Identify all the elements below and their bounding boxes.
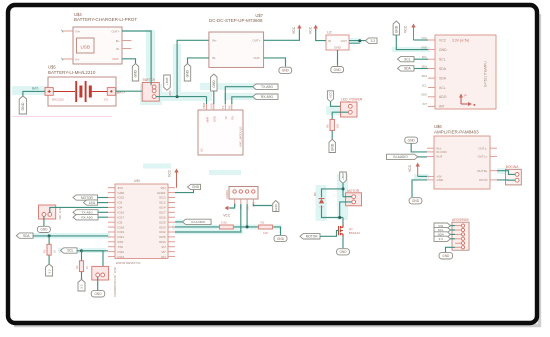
svg-text:GND: GND (21, 102, 25, 110)
svg-text:IN.R: IN.R (437, 155, 443, 159)
wire RX-A9G to A9G RX pin (232, 97, 253, 104)
svg-text:SCL: SCL (439, 58, 446, 62)
switch S1 body (142, 83, 159, 102)
wire SDA tag to MPU (414, 68, 428, 70)
svg-text:INT: INT (439, 105, 444, 109)
net tag MOTOR (ESP32) (73, 195, 98, 200)
button BUT_ULTRASONIDO body (92, 266, 109, 280)
junction motor top (342, 187, 345, 190)
pin IN- of U$4 (62, 58, 73, 60)
net tag TX-A9G (253, 84, 278, 89)
svg-text:IO18: IO18 (118, 225, 125, 229)
wire drain node to Q1 (342, 218, 344, 225)
svg-text:OUT+: OUT+ (111, 29, 119, 33)
ground tag GND (A9G) (211, 74, 217, 91)
svg-text:SDMD1: SDMD1 (225, 189, 229, 199)
module A9G body (198, 110, 243, 155)
BUT_ULTRASONIDO pin 1 (96, 273, 100, 277)
svg-text:VCC: VCC (439, 38, 447, 42)
svg-text:3.3: 3.3 (439, 237, 444, 241)
BUT_IN1 pin 2 (48, 213, 52, 217)
svg-text:VBAT: VBAT (205, 116, 209, 123)
net tag 3.3 (366, 38, 378, 44)
resistor R2 10K (259, 225, 273, 229)
wire TX-A9G tag to IO16 (98, 211, 108, 213)
IC U2 body (326, 35, 349, 50)
battery negative terminal (45, 88, 53, 96)
svg-text:GY-521 ITG/MPU: GY-521 ITG/MPU (484, 61, 488, 87)
svg-text:GND: GND (94, 292, 102, 296)
wire VCC to MPU VCC pin (414, 39, 429, 41)
svg-text:+BAT: +BAT (165, 77, 169, 85)
svg-text:OUT.L-: OUT.L- (478, 146, 487, 150)
IC U$0 amplifier body (434, 136, 490, 189)
pin RX of A9G (231, 104, 233, 110)
wire highlight glows (140, 84, 162, 105)
svg-text:GND: GND (339, 250, 347, 254)
wire Q1 source to ground (342, 237, 344, 249)
svg-text:IN+: IN+ (76, 29, 81, 33)
ground tag GND (U$7 IN-) (184, 64, 190, 82)
power symbol VCC (MPU) (413, 26, 415, 40)
svg-text:BSS123: BSS123 (349, 231, 360, 235)
wire SCL tag to IO22 (77, 250, 108, 252)
button BUT_IN1 body (39, 205, 56, 219)
MOTOR pin 1 (352, 195, 356, 199)
svg-text:XDA: XDA (439, 76, 447, 80)
resistor R6 (330, 120, 334, 131)
wire BAT+ to switch (116, 90, 152, 92)
wire diode bottom to drain node (322, 206, 344, 218)
svg-text:ADO: ADO (421, 93, 427, 97)
junction at U2 OUT (358, 39, 361, 42)
wire motor pin 2 to drain node (340, 202, 352, 218)
wire to flyback diode top (322, 189, 344, 198)
wire amp GND to ground (412, 180, 427, 197)
connector BOCINA body (506, 169, 522, 185)
svg-text:D1: D1 (313, 192, 317, 196)
wire SDMD1 pin1 to VCC (230, 204, 235, 208)
SDMD1 pins (233, 190, 236, 193)
svg-text:VBAT: VBAT (202, 102, 206, 109)
svg-text:VN: VN (161, 245, 165, 249)
svg-text:GND: GND (118, 191, 126, 195)
wire SDA junction to R3 (48, 236, 50, 244)
connector SDMD1 body (229, 187, 258, 200)
ESP32 left pins (108, 187, 115, 189)
pin VBAT of A9G (206, 104, 208, 110)
svg-text:3V3: 3V3 (118, 186, 124, 190)
svg-text:RX0: RX0 (118, 240, 124, 244)
ground tag GND (U$7 OUT-) (279, 67, 292, 73)
svg-text:R6: R6 (326, 124, 330, 128)
svg-text:LED_POWER: LED_POWER (341, 97, 363, 101)
junction SCL (80, 249, 83, 252)
power symbol VCC (amp) (417, 165, 419, 176)
wire SCL to BUT_ULTRASONIDO (82, 251, 104, 273)
svg-text:IO4: IO4 (118, 206, 123, 210)
svg-text:IN-AUDIO: IN-AUDIO (393, 155, 408, 159)
switch pin 2 (152, 89, 156, 93)
net tag +BAT (motor) (340, 172, 347, 183)
svg-text:USB: USB (80, 44, 89, 49)
svg-text:GND: GND (212, 80, 216, 88)
svg-text:SCL: SCL (404, 57, 411, 61)
wire amp OUT.R+ to BOCINA pin 1 (497, 171, 515, 175)
svg-text:MOTOR: MOTOR (81, 196, 94, 200)
connector APDS9960 body (452, 222, 469, 250)
svg-text:IO23: IO23 (118, 255, 125, 259)
svg-text:BUT_ULTRASONIDO: BUT_ULTRASONIDO (113, 268, 117, 298)
wire 5.6K to R2 (234, 226, 258, 228)
svg-text:BATTERY-CHARGER-LI-PROT: BATTERY-CHARGER-LI-PROT (74, 17, 137, 22)
net tag SCL (ESP32) (61, 248, 78, 253)
wire ESP32 GND1 to ground tag (175, 190, 194, 193)
IC U$7 body (209, 32, 264, 67)
transistor Q1 BSS123 (342, 225, 344, 228)
wire U$7 OUT+ to VCC (264, 30, 300, 40)
USB connector symbol inside U$4 (77, 38, 95, 53)
svg-text:ESP32 DEVKITV1: ESP32 DEVKITV1 (116, 261, 141, 265)
svg-text:RX-A9G: RX-A9G (261, 95, 274, 99)
ground tag GND (MPU) (393, 21, 399, 35)
BOCINA pin 2 (515, 178, 519, 182)
resistor R? 5.6K (220, 225, 234, 229)
net tag 3.3 (R4) (78, 279, 85, 291)
svg-text:GND: GND (40, 228, 48, 232)
svg-text:IO15: IO15 (118, 196, 125, 200)
wire U$7 OUT- to ground (264, 58, 286, 67)
BUT_IN1 pin 1 (42, 213, 46, 217)
BOCINA pin 1 (515, 173, 519, 177)
pin B+ of U$4 (122, 40, 132, 42)
svg-text:GND: GND (334, 68, 342, 72)
svg-text:IO16: IO16 (118, 211, 125, 215)
wire BUT_IN1 to IO4 (50, 207, 108, 212)
net tag TX-A9G (ESP32) (73, 210, 98, 215)
svg-text:OUT-: OUT- (112, 57, 119, 61)
svg-text:IO21: IO21 (118, 235, 125, 239)
svg-text:A9G_MODULE: A9G_MODULE (239, 126, 243, 147)
wire IN-AUDIO to amp IN.R (418, 156, 427, 158)
svg-text:1K: 1K (85, 266, 89, 269)
pin IN+ of U$4 (62, 30, 73, 32)
svg-text:IN-: IN- (76, 57, 80, 61)
net tag +BAT (164, 75, 171, 90)
wire R2 to ground (273, 227, 280, 235)
wire IO33 to resistor (175, 226, 219, 228)
svg-text:GND: GND (186, 69, 190, 77)
net tag SCL (MPU) (398, 56, 415, 61)
svg-text:XDA: XDA (421, 74, 427, 78)
wire +BAT rail to A9G VBAT pin (206, 97, 208, 104)
wire switch to +BAT rail (156, 96, 207, 98)
svg-text:R4: R4 (75, 265, 79, 269)
svg-text:SWITCH: SWITCH (142, 78, 155, 82)
net tag 3.3 (R3) (46, 264, 53, 276)
svg-text:IO33: IO33 (159, 225, 166, 229)
svg-text:GND: GND (213, 116, 217, 122)
pin GND of A9G (213, 104, 215, 110)
svg-text:VCC: VCC (408, 164, 412, 172)
svg-text:OUT: OUT (341, 39, 348, 43)
svg-text:SDA: SDA (23, 234, 30, 238)
svg-text:IN+: IN+ (212, 39, 217, 43)
IC U$4 battery charger body (73, 27, 122, 64)
svg-text:BATTERY-LI-MH/L2210: BATTERY-LI-MH/L2210 (48, 70, 96, 75)
connector LED_POWER body (341, 102, 358, 117)
svg-text:330: 330 (336, 124, 340, 129)
wire GND tag to MPU GND pin (396, 35, 428, 50)
svg-text:5.6K: 5.6K (221, 220, 227, 224)
svg-text:EN: EN (161, 255, 165, 259)
svg-text:IO12: IO12 (159, 201, 166, 205)
pin B- of U$4 (122, 48, 132, 50)
svg-text:GND: GND (442, 254, 450, 258)
wire amp OUT.R to BOCINA pin 2 (497, 179, 515, 181)
svg-text:SCL: SCL (422, 55, 428, 59)
svg-text:XCL: XCL (439, 86, 446, 90)
svg-text:VCC: VCC (329, 91, 333, 98)
svg-text:APDS9960: APDS9960 (452, 218, 469, 222)
pin TX of A9G (224, 104, 226, 110)
svg-text:IO5: IO5 (118, 220, 123, 224)
wire SDMD1 pin4 to ground (253, 204, 272, 206)
resistor R3 (47, 244, 51, 255)
svg-text:IO17: IO17 (118, 215, 125, 219)
net tag RX-A9G (ESP32) (73, 215, 98, 220)
wire highlight pink artifact (12, 115, 112, 117)
wire SCL junction to R4 (81, 251, 83, 261)
switch pin 3 (152, 95, 156, 99)
svg-text:GND: GND (408, 139, 416, 143)
wire LIN1 tag to IO2 (98, 202, 109, 204)
power symbol VCC (SDMD1) (227, 207, 230, 209)
net tag IN-AUDIO (ESP32) (183, 219, 212, 224)
GY-521 axis symbol (460, 97, 462, 105)
svg-text:VIN: VIN (160, 186, 165, 190)
svg-text:BOCINA: BOCINA (506, 165, 519, 169)
wire BUT_IN1 to ground (43, 216, 45, 226)
svg-text:TX-A9G: TX-A9G (82, 211, 94, 215)
wire BUT_ULTRASONIDO to ground (97, 277, 99, 291)
svg-text:GND: GND (412, 199, 420, 203)
svg-text:GND: GND (274, 204, 278, 210)
svg-text:TX: TX (224, 116, 228, 120)
wire charger OUT+ to switch (122, 31, 151, 85)
wire TX-A9G to A9G TX pin (225, 87, 252, 104)
wire R3 to 3.3 tag (48, 255, 50, 264)
ground tag GND (SDMD1) (273, 201, 279, 212)
svg-text:SCL: SCL (67, 249, 73, 253)
svg-text:TX0: TX0 (118, 245, 124, 249)
svg-text:R3: R3 (42, 249, 46, 253)
svg-text:INT: INT (423, 102, 428, 106)
net tag SDA (MPU) (398, 66, 415, 71)
wire APDS9960 GND pin to ground (446, 247, 456, 252)
wire R4 to 3.3 tag (81, 272, 83, 280)
junction SDA (48, 234, 51, 237)
GY-521 pins VCC GND SCL SDA XDA XCL ADO INT (428, 39, 435, 41)
ground tag GND (ESP32 GND1) (188, 184, 201, 189)
svg-text:OUT.R+: OUT.R+ (477, 169, 488, 173)
wire SCL tag to MPU (414, 58, 428, 60)
resistor R4 (79, 261, 83, 272)
ground tag GND (U$4 OUT-) (132, 64, 138, 82)
wire RX-A9G tag to IO17 (98, 216, 108, 218)
battery U$5 body (48, 77, 116, 106)
svg-text:GND: GND (421, 45, 427, 49)
svg-text:TX-A9G: TX-A9G (261, 85, 273, 89)
ground tag GND (amp in) (405, 137, 418, 143)
svg-text:OUT.R: OUT.R (479, 178, 488, 182)
ground tag GND (battery) (19, 96, 26, 114)
svg-text:OUT.L+: OUT.L+ (478, 155, 488, 159)
svg-text:IO27: IO27 (159, 211, 166, 215)
wire SDMD1 pin2 to IO19 (175, 204, 241, 232)
wire SDA tag to IO21 (33, 235, 108, 237)
svg-text:RX: RX (228, 105, 232, 109)
svg-text:B-: B- (117, 47, 120, 51)
junction audio net (246, 225, 249, 228)
svg-text:IO34: IO34 (159, 240, 166, 244)
wire +BAT rail to DC-DC IN+ (177, 40, 209, 96)
wire U$4 OUT- to ground (122, 59, 136, 64)
svg-text:3.3V (or 5v): 3.3V (or 5v) (452, 38, 469, 42)
svg-text:BAT-: BAT- (32, 86, 39, 90)
svg-text:3.3: 3.3 (47, 269, 51, 274)
svg-text:VCC: VCC (168, 169, 172, 177)
svg-text:GND: GND (209, 103, 213, 109)
ground tag GND (BUT_ULTRASONIDO) (91, 291, 105, 297)
power symbol VCC (ESP32 VIN) (176, 171, 178, 187)
IC ESP32 body (115, 184, 168, 259)
svg-text:IN-: IN- (212, 56, 216, 60)
svg-text:R2: R2 (261, 220, 265, 224)
ground tag GND (BUT_IN1) (37, 226, 50, 232)
wire U$7 IN- to ground (188, 58, 209, 64)
ground tag GND (LED) (329, 139, 335, 152)
svg-text:IO14: IO14 (159, 206, 166, 210)
svg-text:IO2: IO2 (118, 201, 123, 205)
APDS9960 net tags VIN SCL SDA 3.3 (434, 223, 451, 228)
svg-text:AMPLIFIER-PAM8403: AMPLIFIER-PAM8403 (434, 129, 479, 134)
svg-text:GND: GND (395, 25, 399, 33)
svg-text:IN: IN (328, 39, 331, 43)
svg-text:SDA: SDA (439, 67, 447, 71)
svg-text:IO25: IO25 (159, 220, 166, 224)
wire R6 to ground (331, 131, 333, 140)
wire MOTOR tag to IO15 (98, 197, 109, 199)
svg-text:VCC: VCC (421, 36, 427, 40)
svg-text:10K: 10K (263, 231, 268, 235)
svg-text:B+: B+ (116, 39, 120, 43)
MOTOR pin 2 (352, 200, 356, 204)
LED_POWER pin 1 (348, 104, 352, 108)
wire IO25 to IN-AUDIO tag (175, 221, 183, 223)
svg-text:RX-A9G: RX-A9G (81, 215, 93, 219)
wire VCC tag to LED pin 1 (331, 102, 344, 107)
svg-text:GND: GND (134, 69, 138, 77)
wire MOTOR tag to Q1 gate (320, 231, 339, 237)
svg-text:MOTOR: MOTOR (306, 235, 319, 239)
svg-text:XCL: XCL (422, 83, 428, 87)
svg-text:GND: GND (439, 48, 447, 52)
svg-text:IO35: IO35 (159, 235, 166, 239)
svg-text:VCC: VCC (404, 25, 408, 33)
APDS9960 pins (461, 224, 464, 227)
net tag SDA (ESP32) (16, 233, 33, 238)
ground tag GND (APDS9960) (439, 253, 453, 259)
LED_POWER pin 2 (348, 110, 352, 114)
svg-text:SDA: SDA (404, 67, 412, 71)
power symbol VCC (U2 in) (315, 27, 317, 31)
ground tag GND (Q1) (337, 249, 350, 255)
wire SDMD1 pin3 to audio net (246, 204, 248, 227)
connector MOTOR body (346, 193, 362, 206)
wire U2 GND to ground (337, 50, 339, 66)
svg-text:IN-AUDIO: IN-AUDIO (191, 220, 206, 224)
switch pin 1 (152, 85, 156, 89)
wire GND to amp IN.CON (411, 144, 427, 152)
svg-text:BUT_IN1: BUT_IN1 (58, 208, 62, 221)
svg-text:ADO: ADO (439, 95, 447, 99)
ground tag GND (R2) (274, 235, 287, 241)
svg-text:VCC: VCC (223, 214, 231, 218)
BUT_ULTRASONIDO pin 2 (101, 273, 105, 277)
wire VCC to U2 IN (316, 29, 326, 41)
svg-text:GND: GND (282, 69, 290, 73)
svg-text:+BAT: +BAT (168, 90, 172, 97)
svg-text:RX: RX (231, 116, 235, 120)
svg-text:+BAT: +BAT (341, 172, 345, 180)
svg-text:IO19: IO19 (118, 230, 125, 234)
wire VCC to amp +5V (418, 175, 427, 177)
wire motor pin 1 stub (343, 196, 352, 198)
wire +BAT tag to motor pin 1 (342, 183, 344, 196)
net tag VCC (LED) (327, 91, 333, 102)
svg-text:IN.CON: IN.CON (437, 150, 447, 154)
svg-text:1K: 1K (52, 250, 56, 253)
wire GND tag to A9G GND pin (213, 91, 215, 104)
svg-text:GND: GND (277, 237, 285, 241)
junction drain node (338, 216, 341, 219)
svg-text:3.3: 3.3 (371, 39, 376, 43)
ground tag GND (U2) (331, 67, 344, 73)
ESP32 right pins (168, 187, 175, 189)
svg-text:U6: U6 (200, 148, 204, 152)
svg-text:IO32: IO32 (159, 230, 166, 234)
svg-text:OUT+: OUT+ (252, 39, 260, 43)
svg-text:GND: GND (334, 46, 342, 50)
net tag MOTOR (gate) (300, 234, 320, 239)
svg-text:VCC: VCC (292, 26, 296, 34)
svg-text:MH/L2210: MH/L2210 (52, 98, 65, 102)
svg-text:OUT-: OUT- (253, 56, 260, 60)
svg-text:U2: U2 (327, 31, 332, 35)
U$0 pins (427, 147, 434, 149)
net tag LIN1 (84, 200, 98, 205)
svg-text:IO26: IO26 (159, 215, 166, 219)
svg-text:LIN1: LIN1 (89, 201, 96, 205)
svg-text:TX: TX (221, 105, 225, 109)
svg-text:P: P (465, 94, 467, 98)
svg-text:GND: GND (437, 178, 443, 182)
svg-text:VCC: VCC (309, 26, 313, 34)
svg-text:SDA: SDA (421, 64, 427, 68)
wire LED pin 2 to resistor R6 (332, 112, 348, 119)
battery cell plates (53, 91, 75, 93)
